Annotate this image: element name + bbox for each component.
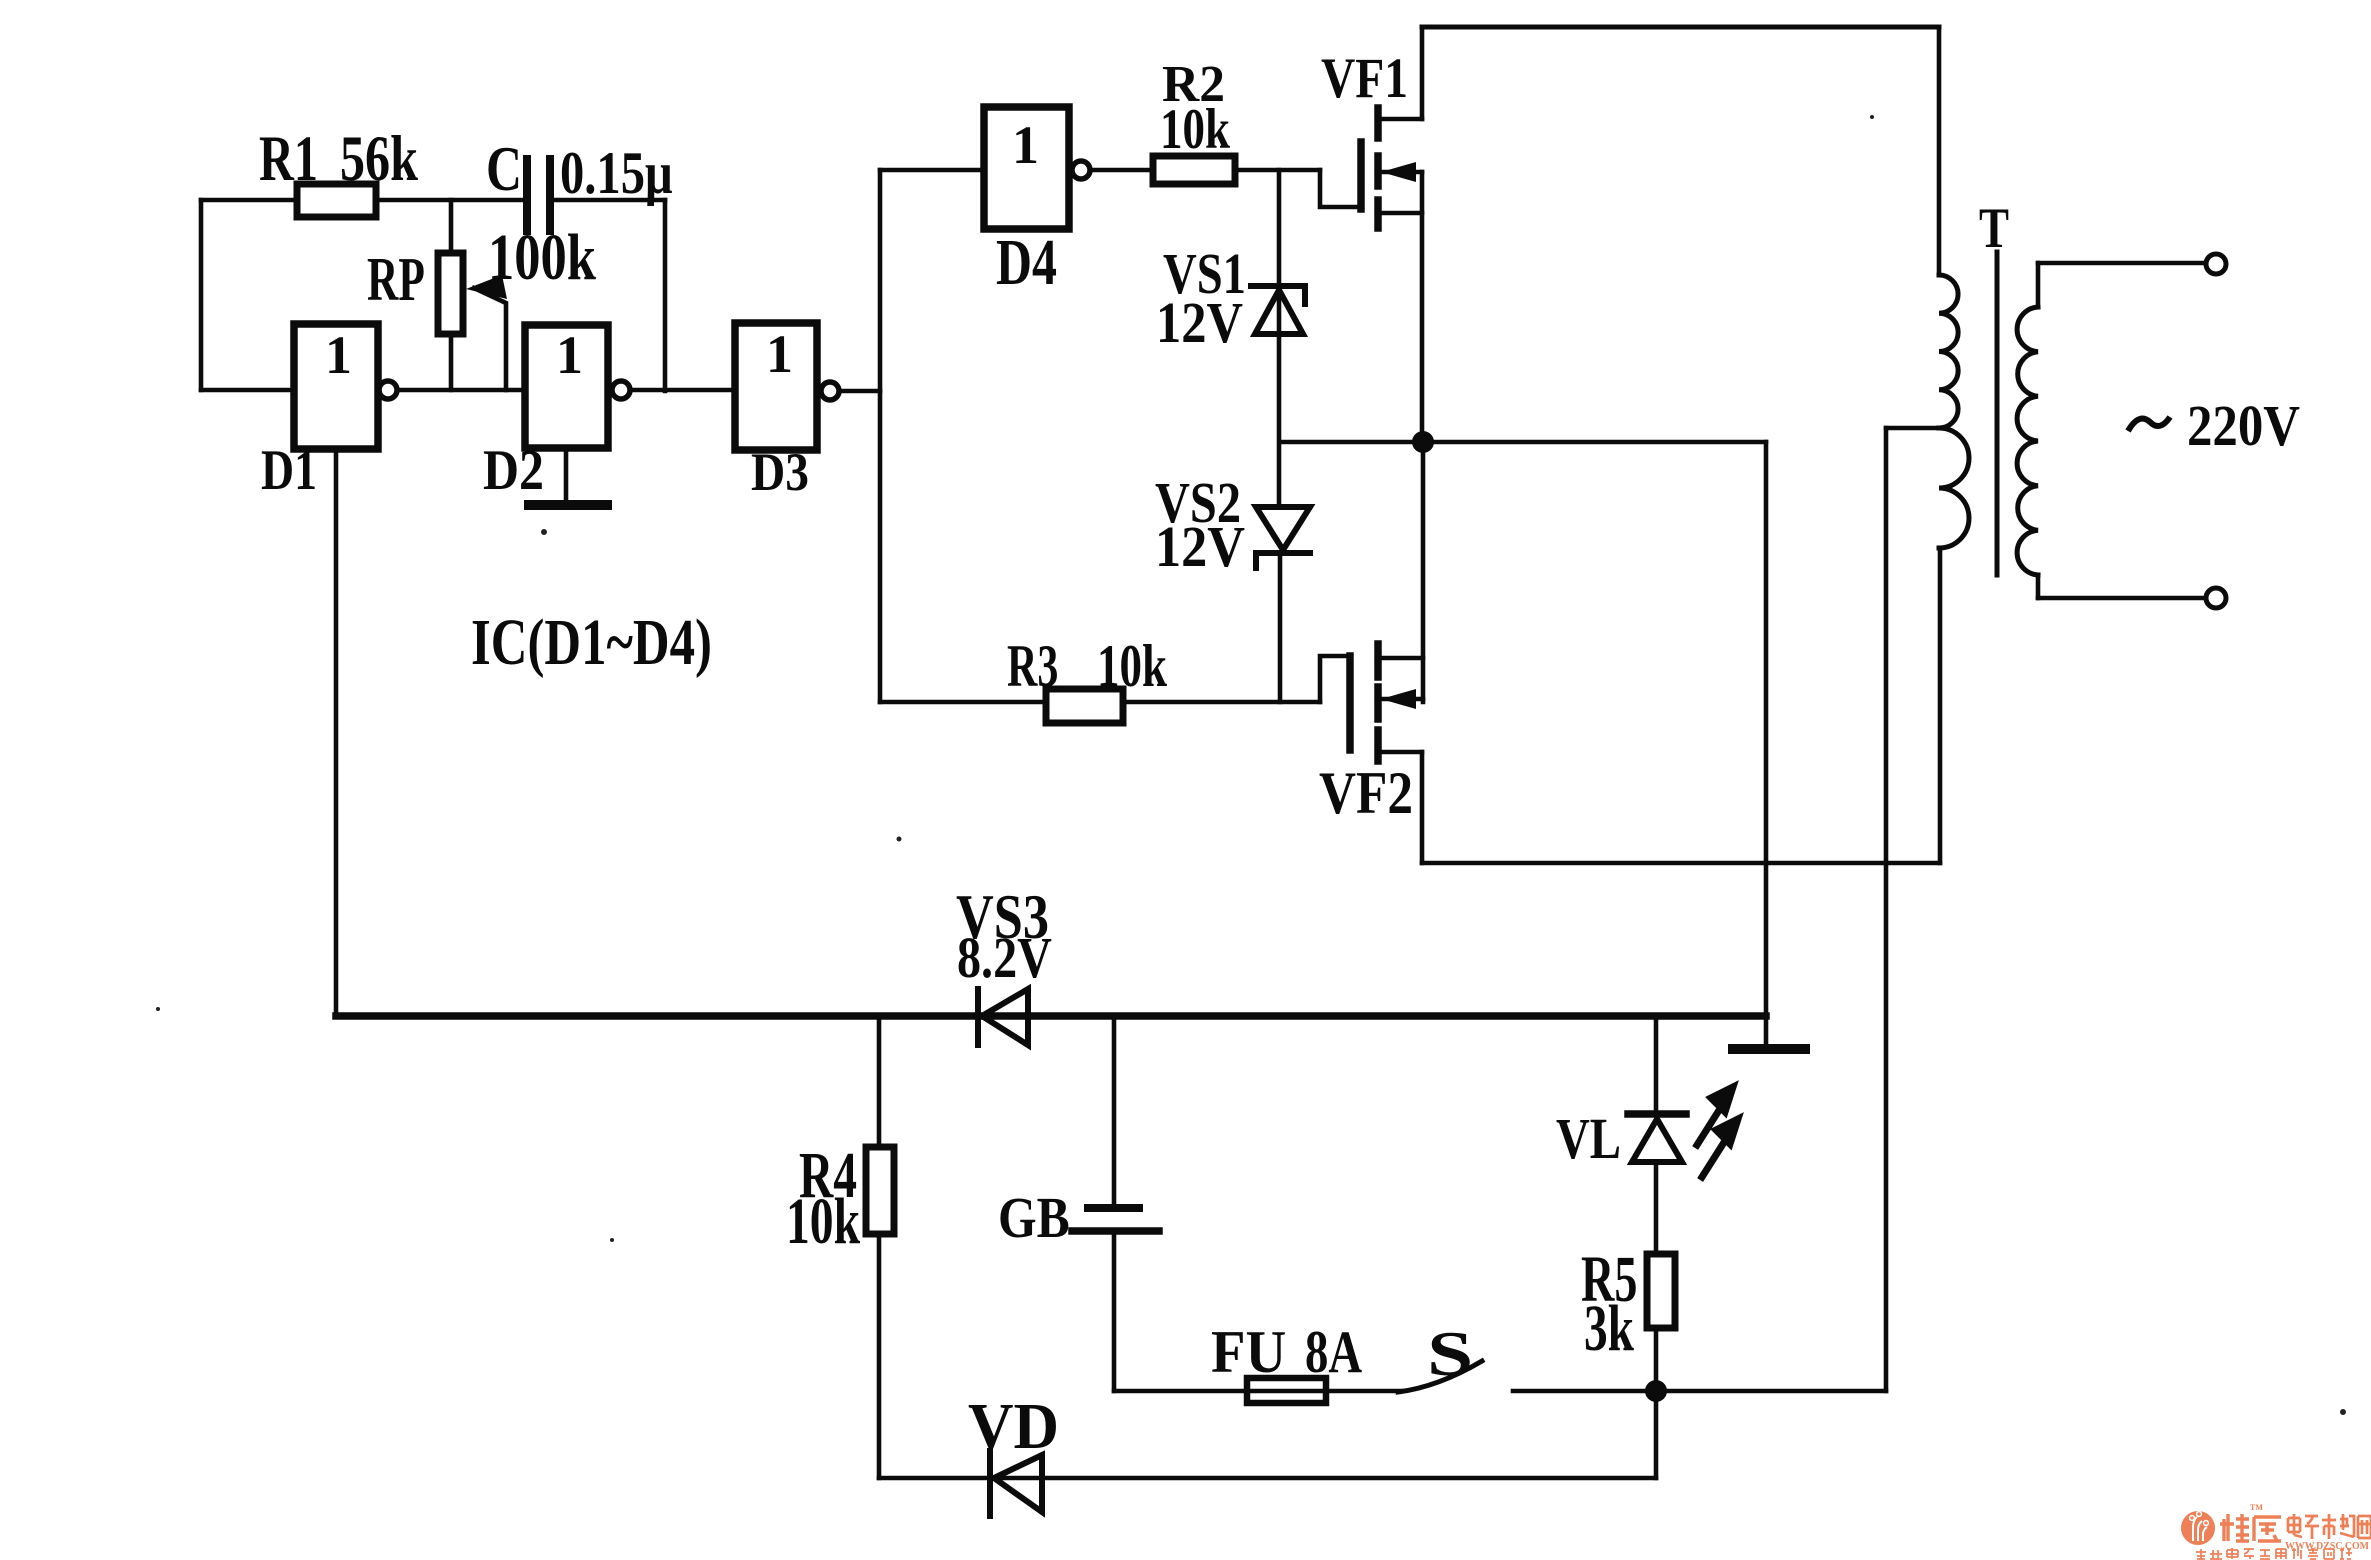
svg-text:C: C — [486, 135, 522, 205]
svg-text:GB: GB — [998, 1185, 1070, 1249]
svg-text:1: 1 — [325, 325, 352, 385]
svg-text:R3: R3 — [1007, 634, 1058, 700]
svg-text:8A: 8A — [1305, 1318, 1362, 1385]
svg-text:VF1: VF1 — [1321, 47, 1408, 110]
svg-text:TM: TM — [2250, 1503, 2263, 1512]
svg-text:100k: 100k — [488, 220, 597, 293]
svg-text:D1: D1 — [261, 439, 317, 502]
svg-text:8.2V: 8.2V — [957, 926, 1052, 990]
svg-text:3k: 3k — [1584, 1293, 1634, 1365]
svg-text:R1: R1 — [259, 123, 318, 195]
svg-text:RP: RP — [367, 244, 425, 314]
svg-text:FU: FU — [1211, 1318, 1286, 1385]
svg-text:VF2: VF2 — [1319, 760, 1413, 827]
svg-text:D4: D4 — [996, 225, 1057, 298]
svg-text:10k: 10k — [1097, 634, 1167, 700]
svg-text:10k: 10k — [786, 1186, 860, 1258]
svg-text:10k: 10k — [1160, 98, 1230, 161]
svg-text:56k: 56k — [340, 122, 419, 195]
svg-text:0.15μ: 0.15μ — [560, 139, 673, 206]
svg-text:12V: 12V — [1155, 515, 1245, 579]
svg-text:D2: D2 — [483, 438, 544, 502]
svg-text:220V: 220V — [2187, 393, 2300, 458]
svg-text:1: 1 — [556, 325, 583, 385]
svg-text:T: T — [1979, 197, 2009, 260]
svg-text:1: 1 — [766, 324, 793, 384]
svg-text:S: S — [1427, 1319, 1473, 1390]
svg-text:12V: 12V — [1156, 291, 1243, 355]
svg-text:1: 1 — [1012, 115, 1039, 175]
svg-text:VD: VD — [968, 1389, 1059, 1463]
svg-text:D3: D3 — [751, 442, 809, 501]
svg-text:IC(D1~D4): IC(D1~D4) — [471, 606, 712, 679]
svg-text:VL: VL — [1556, 1107, 1621, 1171]
